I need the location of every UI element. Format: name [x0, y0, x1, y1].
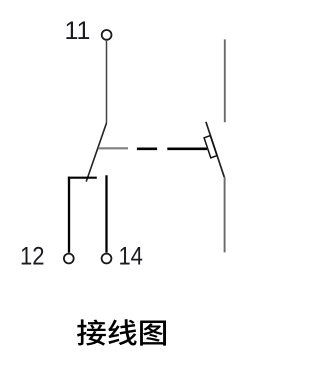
caption 接线图 — [77, 319, 166, 345]
svg-text:14: 14 — [118, 243, 143, 271]
terminal circle 11 — [102, 30, 112, 40]
NC fixed contact bar — [68, 177, 97, 179]
mechanical linkage dash 2 — [167, 148, 207, 151]
terminal circle 14 — [102, 254, 112, 264]
actuator lever — [206, 122, 224, 177]
mechanical linkage dash 1 — [137, 148, 157, 151]
actuator body rectangle — [204, 136, 217, 158]
wire to terminal 12 — [68, 177, 70, 253]
actuator lower guide line — [224, 177, 226, 253]
wire to terminal 14 — [105, 175, 107, 252]
terminal circle 12 — [64, 254, 74, 264]
moving contact lever (common) — [86, 123, 106, 182]
svg-text:12: 12 — [20, 243, 45, 271]
svg-text:11: 11 — [65, 17, 91, 45]
mechanical linkage first segment (gray) — [98, 147, 128, 149]
actuator upper guide line — [224, 39, 226, 122]
wire from terminal 11 to pivot — [106, 41, 108, 123]
